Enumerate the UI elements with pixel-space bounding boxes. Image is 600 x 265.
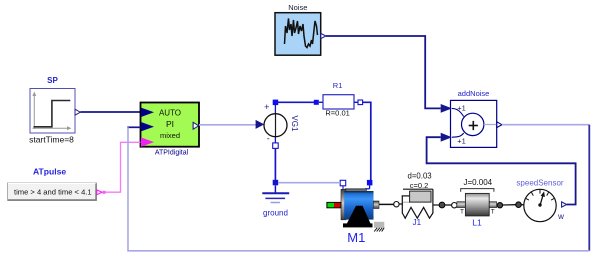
VG1 control input pin <box>256 120 265 129</box>
svg-text:w: w <box>557 212 564 221</box>
speed sensor <box>524 189 556 221</box>
VG1 pin p (top) <box>273 100 279 106</box>
ATpulse output pin <box>97 190 102 195</box>
svg-text:startTime=8: startTime=8 <box>29 135 74 145</box>
svg-text:-: - <box>267 134 270 144</box>
junction circle J1-L1 <box>439 202 445 208</box>
flange a hollow circle (motor to J1) <box>394 202 399 207</box>
ATPIdigital input pin 2 <box>141 122 154 131</box>
svg-text:AUTO: AUTO <box>159 109 181 118</box>
speedSensor output pin <box>562 202 567 207</box>
ground <box>262 185 289 202</box>
addNoise output pin <box>484 124 497 126</box>
junction circle at speedSensor <box>516 202 522 208</box>
svg-text:R1: R1 <box>333 81 343 90</box>
svg-text:J=0.004: J=0.004 <box>463 178 492 187</box>
svg-text:mixed: mixed <box>160 131 180 140</box>
svg-text:addNoise: addNoise <box>458 89 490 98</box>
M1 pin p <box>367 180 373 186</box>
step source SP block <box>30 89 75 134</box>
addNoise input pin 2 <box>441 133 452 142</box>
M1 pin n <box>340 180 346 186</box>
svg-text:T: T <box>491 209 495 216</box>
VG1 pin n (bottom) <box>273 143 279 149</box>
wire feedback bottom and left segments <box>128 127 589 251</box>
svg-text:ATPIdigital: ATPIdigital <box>155 150 189 157</box>
svg-text:+1: +1 <box>457 103 466 112</box>
wire Noise.y to addNoise input1 <box>326 36 441 108</box>
noise source block <box>275 13 321 56</box>
Noise output pin <box>321 33 326 38</box>
svg-text:R=0.01: R=0.01 <box>325 109 349 118</box>
svg-text:time > 4 and time < 4.1: time > 4 and time < 4.1 <box>14 187 92 196</box>
svg-text:+1: +1 <box>457 136 466 145</box>
svg-text:Noise: Noise <box>288 3 307 12</box>
SP output connector <box>75 109 80 115</box>
motor shaft <box>379 203 394 205</box>
flange circle at L1 <box>452 203 457 208</box>
wire feedback into ATPIdigital input2 <box>127 126 140 128</box>
spring damper J1 <box>399 189 439 218</box>
svg-text:T: T <box>460 209 464 216</box>
svg-text:c=0.2: c=0.2 <box>410 181 429 190</box>
wire speedSensor.w to addNoise input2 <box>427 137 576 204</box>
junction circle L1 out <box>497 203 502 208</box>
resistor R1 <box>319 95 358 109</box>
addNoise input pin 1 <box>441 104 452 113</box>
signal voltage source VG1 <box>256 102 299 144</box>
svg-text:d=0.03: d=0.03 <box>408 171 432 180</box>
adder addNoise block <box>451 100 497 147</box>
wire SP.y to ATPIdigital input1 <box>80 111 140 113</box>
wire R1.n to M1.p <box>363 102 371 180</box>
R1 pin n <box>358 100 363 105</box>
svg-text:ground: ground <box>263 209 288 218</box>
indicator lamp <box>327 202 341 207</box>
wire addNoise.y feedback loop to ATPIdigital input2 <box>502 124 589 126</box>
node junction at ground <box>273 180 279 186</box>
shaft link L1 to speedSensor <box>503 204 516 206</box>
wire feedback right vertical <box>588 125 590 251</box>
svg-text:PI: PI <box>166 119 174 129</box>
svg-text:J1: J1 <box>413 218 422 227</box>
wire ATpulse.y to ATPIdigital input3 <box>106 142 141 192</box>
inertia L1 <box>457 189 497 216</box>
ATPIdigital input pin 1 <box>141 108 154 117</box>
controller block ATPIdigital <box>141 103 200 147</box>
wire ground node to M1.n <box>278 182 340 184</box>
svg-text:speedSensor: speedSensor <box>516 179 563 188</box>
R1 pin p <box>314 100 319 105</box>
svg-text:SP: SP <box>47 76 58 85</box>
svg-text:M1: M1 <box>347 230 365 245</box>
ATPIdigital input pin 3 (AT trigger) <box>141 137 154 146</box>
ATPIdigital output pin <box>193 122 198 129</box>
svg-text:+: + <box>264 102 269 112</box>
svg-text:VG1: VG1 <box>290 115 299 132</box>
dc motor M1 <box>327 189 394 232</box>
pulse source ATpulse block <box>8 183 97 201</box>
svg-text:L1: L1 <box>472 217 482 227</box>
wire VG1.n to ground node <box>274 148 276 180</box>
shaft link J1 to L1 <box>445 204 452 206</box>
wire ATPIdigital.y to VG1 control input <box>199 124 256 126</box>
wire VG1.p to R1.p <box>275 101 315 103</box>
svg-text:ATpulse: ATpulse <box>33 167 66 177</box>
